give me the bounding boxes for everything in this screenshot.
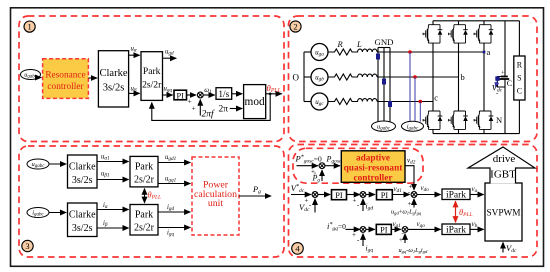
current tap junction c xyxy=(419,100,423,104)
svg-text:ugq-ω1Lgigd: ugq-ω1Lgigd xyxy=(399,247,428,254)
svg-text:2πf: 2πf xyxy=(202,109,216,120)
wire i_gabc to Clarke2 xyxy=(49,212,66,214)
wire sum2 to PI2 xyxy=(366,194,375,196)
current sense line c xyxy=(419,102,421,122)
summing junction v_do xyxy=(411,192,417,198)
i_gd feedback arrow xyxy=(362,199,364,211)
i_gq feedback arrow xyxy=(362,234,364,246)
inductor phase c xyxy=(355,99,378,102)
svg-text:+: + xyxy=(305,197,309,205)
input node i_gabc (region3) xyxy=(27,208,49,218)
RSC block xyxy=(514,56,525,100)
svg-text:IGBT: IGBT xyxy=(490,169,516,181)
inductor phase a xyxy=(355,49,378,52)
voltage sensor c xyxy=(388,101,392,107)
wire i_beta xyxy=(97,227,129,229)
wire u_beta1 xyxy=(97,179,129,181)
wire sum to PI3 xyxy=(366,228,375,230)
feedback wire to Park xyxy=(152,94,270,121)
source u_ga xyxy=(311,44,328,61)
inductor phase b xyxy=(355,74,378,77)
wire u_gabc to Clarke1 xyxy=(49,163,66,165)
wire i_gq to power unit xyxy=(158,227,190,229)
igbt Q6 (leg2 bottom) xyxy=(449,111,468,129)
igbt Q4 (leg1 bottom) xyxy=(423,111,442,129)
svg-text:adaptive: adaptive xyxy=(356,153,390,163)
wire u_gq1 to power unit xyxy=(158,183,190,185)
svg-text:igd: igd xyxy=(167,204,174,212)
wire u_alpha1 xyxy=(97,161,129,163)
leg3 wire xyxy=(483,21,485,134)
power calculation unit block xyxy=(192,157,239,235)
vdc arrow xyxy=(496,81,498,87)
vdc sensor xyxy=(495,76,499,80)
wire V*dc to sum1 xyxy=(291,194,311,196)
drive IGBT output arrow xyxy=(468,147,535,184)
svg-text:uβ1: uβ1 xyxy=(101,171,110,179)
node u_gabc (region2) xyxy=(372,121,396,131)
wire v_d2 to sum3 xyxy=(405,166,414,190)
mod block xyxy=(244,85,266,119)
wire phase b to leg2 xyxy=(377,76,458,78)
svg-text:C: C xyxy=(517,87,522,96)
svg-text:ugd: ugd xyxy=(165,49,174,57)
svg-text:Park: Park xyxy=(143,66,161,77)
region label circle 4 xyxy=(292,243,304,255)
inner dashed boundary (oscillation suppression) xyxy=(293,148,423,183)
current sense line a xyxy=(409,52,411,122)
svg-text:+: + xyxy=(353,197,357,205)
svg-text:2: 2 xyxy=(293,22,297,32)
resistor phase a xyxy=(328,49,355,55)
wire iPark1 to SVPWM xyxy=(470,194,484,196)
region 4 boundary (current/voltage control) xyxy=(289,145,538,258)
PI block (dc voltage) xyxy=(332,190,347,200)
region label circle 2 xyxy=(290,21,301,32)
svg-text:1: 1 xyxy=(27,22,31,32)
svg-text:ω1: ω1 xyxy=(204,87,212,95)
wire i_gd to power unit xyxy=(158,211,190,213)
node i_gabc xyxy=(402,121,424,131)
integrator 1/s block xyxy=(216,88,232,100)
svg-text:igq: igq xyxy=(167,230,174,238)
wire 2pi to mod xyxy=(230,108,242,110)
svg-text:quasi-resonant: quasi-resonant xyxy=(344,163,404,173)
dc-link branch wire xyxy=(504,21,506,134)
resistor phase c xyxy=(328,99,355,105)
wire i*gq to sum xyxy=(346,228,360,230)
svg-text:L: L xyxy=(356,39,362,49)
wire u_gq to PI xyxy=(163,94,173,96)
voltage sense line b xyxy=(383,48,385,122)
wire PI1 to sum2 xyxy=(347,194,360,196)
svg-text:2s/2r: 2s/2r xyxy=(142,80,162,91)
voltage sensor b xyxy=(382,79,386,85)
svg-text:Park: Park xyxy=(135,210,153,221)
voltage sense line c xyxy=(389,48,391,122)
svg-text:drive: drive xyxy=(493,153,516,165)
svg-text:iβ: iβ xyxy=(103,220,108,228)
svg-text:controller: controller xyxy=(47,82,84,92)
svg-text:a: a xyxy=(487,47,491,57)
resistor phase b xyxy=(328,74,355,80)
svg-text:+: + xyxy=(352,231,356,239)
leg1 wire xyxy=(432,21,434,134)
Vdc feedback arrow xyxy=(314,199,316,213)
summing junction (PLL) xyxy=(197,92,203,98)
wire PI to sum xyxy=(187,94,197,96)
svg-text:PI: PI xyxy=(381,191,389,200)
wire u_alpha xyxy=(129,54,140,56)
voltage sense line a xyxy=(377,48,379,122)
region 3 boundary (power calculation) xyxy=(19,146,284,257)
adaptive quasi-resonant controller block xyxy=(341,151,405,183)
igbt Q2 (leg3 bottom) xyxy=(474,111,493,129)
Clarke 3s/2s block (region1) xyxy=(98,51,128,107)
region label circle 1 xyxy=(24,21,35,32)
wire P*gosc to sum xyxy=(297,165,318,167)
iPark block (q) xyxy=(442,224,470,235)
voltage sensor a xyxy=(376,54,380,60)
svg-text:C: C xyxy=(507,79,512,88)
summing junction i_gq xyxy=(360,227,366,233)
Park 2s/2r block (current) xyxy=(130,205,158,236)
feedforward arrow d xyxy=(413,199,415,208)
svg-text:S: S xyxy=(517,74,521,83)
dc bottom bus xyxy=(433,133,519,135)
Park 2s/2r block (region1) xyxy=(141,52,163,101)
svg-text:1/s: 1/s xyxy=(218,90,229,100)
svg-text:GND: GND xyxy=(374,37,393,47)
wire sum to controller xyxy=(325,165,340,167)
svg-text:O: O xyxy=(293,73,300,83)
wire O to source c xyxy=(304,101,312,103)
svg-text:^: ^ xyxy=(314,172,317,178)
summing junction P_gosc xyxy=(319,163,325,169)
SVPWM block xyxy=(485,183,522,241)
svg-text:uβ: uβ xyxy=(131,86,137,94)
vdc sensor loop wire xyxy=(498,77,506,88)
wire O to source a xyxy=(304,51,312,53)
svg-text:iPark: iPark xyxy=(446,191,466,201)
svg-text:ugq: ugq xyxy=(164,86,173,94)
voltage sense bus cap xyxy=(378,47,390,49)
PI block (PLL) xyxy=(174,90,187,100)
wire iPark2 to SVPWM xyxy=(470,228,484,230)
leg2 wire xyxy=(458,21,460,134)
wire sum to 1/s xyxy=(203,94,214,96)
wire O to source b xyxy=(304,76,312,78)
svg-text:mod: mod xyxy=(245,96,265,108)
current tap junction a xyxy=(408,50,412,54)
resonance controller block xyxy=(43,59,89,99)
svg-text:Resonance: Resonance xyxy=(45,71,85,81)
svg-text:3s/2s: 3s/2s xyxy=(72,223,93,234)
svg-text:ugd+ω1Lgigq: ugd+ω1Lgigq xyxy=(391,209,422,216)
wire phase a to leg3 xyxy=(377,51,484,53)
PI block (d current) xyxy=(377,190,393,200)
wire sum3 to iPark1 xyxy=(417,194,441,196)
svg-text:PI: PI xyxy=(177,91,185,100)
svg-text:R: R xyxy=(517,61,523,70)
svg-text:3s/2s: 3s/2s xyxy=(103,83,125,94)
Park 2s/2r block (voltage) xyxy=(130,156,158,187)
svg-text:+: + xyxy=(192,104,196,113)
region label circle 3 xyxy=(22,240,33,251)
svg-text:ugq1: ugq1 xyxy=(165,175,177,183)
output wire P_g xyxy=(239,195,271,197)
capacitor C plates xyxy=(501,76,508,78)
svg-text:+: + xyxy=(501,70,505,77)
summing junction i_gd xyxy=(360,192,366,198)
svg-text:R: R xyxy=(337,39,344,49)
igbt Q5 (leg3 top) xyxy=(474,25,493,43)
node a xyxy=(483,51,486,54)
svg-text:PI: PI xyxy=(380,226,388,235)
svg-text:iα: iα xyxy=(103,202,108,210)
summing junction Vdc xyxy=(312,192,318,198)
neutral bus wire xyxy=(303,52,305,102)
wire u_gabc to resonance controller xyxy=(39,77,42,79)
theta_PLL coupling arrow (region4) xyxy=(455,201,457,222)
source u_gc xyxy=(311,93,328,110)
dc top bus xyxy=(433,20,519,22)
output wire theta_PLL xyxy=(266,93,282,95)
svg-text:3s/2s: 3s/2s xyxy=(72,175,93,186)
wire sum to iPark2 xyxy=(408,228,441,230)
input 2pi-f arrow xyxy=(199,100,201,116)
PI block (q current) xyxy=(376,224,391,234)
igbt Q1 (leg1 top) xyxy=(423,25,442,43)
svg-text:b: b xyxy=(461,72,465,82)
svg-text:N: N xyxy=(496,115,502,125)
svg-text:PI: PI xyxy=(335,191,343,200)
svg-text:uα: uα xyxy=(131,46,137,54)
wire phase c to leg1 xyxy=(377,101,433,103)
feedforward arrow q xyxy=(404,234,406,243)
output u_gd arrow xyxy=(163,57,177,59)
svg-text:+: + xyxy=(399,236,403,244)
svg-text:2π: 2π xyxy=(219,105,229,115)
wire PI2 to sum3 xyxy=(392,194,409,196)
region 1 boundary (PLL block) xyxy=(19,16,284,142)
wire u_beta xyxy=(129,92,140,94)
input node u_gabc (region3) xyxy=(27,159,49,169)
current sense line b xyxy=(414,77,416,121)
wire resonance controller to Clarke xyxy=(88,77,97,79)
svg-text:Clarke: Clarke xyxy=(100,68,128,79)
feedback node dot xyxy=(269,93,272,96)
svg-text:3: 3 xyxy=(25,241,29,251)
igbt Q3 (leg2 top) xyxy=(449,25,468,43)
svg-text:unit: unit xyxy=(208,198,224,209)
theta_PLL coupling arrow xyxy=(144,189,146,203)
wire PI3 to sum xyxy=(391,228,400,230)
svg-text:controller: controller xyxy=(353,173,392,183)
input node u_gabc (region1) xyxy=(21,70,41,80)
source u_gb xyxy=(311,69,328,86)
current tap junction b xyxy=(413,75,417,79)
svg-text:Park: Park xyxy=(135,162,153,173)
wire i_alpha xyxy=(97,209,129,211)
Clarke 3s/2s block (current) xyxy=(68,203,98,237)
wire sum1 to PI1 xyxy=(318,194,330,196)
svg-text:2s/2r: 2s/2r xyxy=(134,175,155,186)
svg-text:SVPWM: SVPWM xyxy=(486,209,520,219)
Clarke 3s/2s block (voltage) xyxy=(68,155,98,188)
feedback P_g arrow xyxy=(321,170,323,181)
svg-text:+: + xyxy=(408,200,412,208)
wire 1/s to mod xyxy=(232,93,243,95)
RSC branch wire xyxy=(518,21,520,134)
region 2 boundary (main circuit) xyxy=(289,16,538,142)
V_dc input arrow xyxy=(502,242,504,252)
summing junction v_qo xyxy=(402,227,408,233)
svg-text:c: c xyxy=(434,92,438,102)
wire u_gd1 to power unit xyxy=(158,162,190,164)
iPark block (d) xyxy=(442,189,470,200)
svg-text:Clarke: Clarke xyxy=(69,210,96,221)
svg-text:iPark: iPark xyxy=(446,226,466,236)
svg-text:uα1: uα1 xyxy=(101,154,110,162)
svg-text:ugd1: ugd1 xyxy=(165,154,177,162)
svg-text:Clarke: Clarke xyxy=(69,162,96,173)
svg-text:2s/2r: 2s/2r xyxy=(134,223,155,234)
